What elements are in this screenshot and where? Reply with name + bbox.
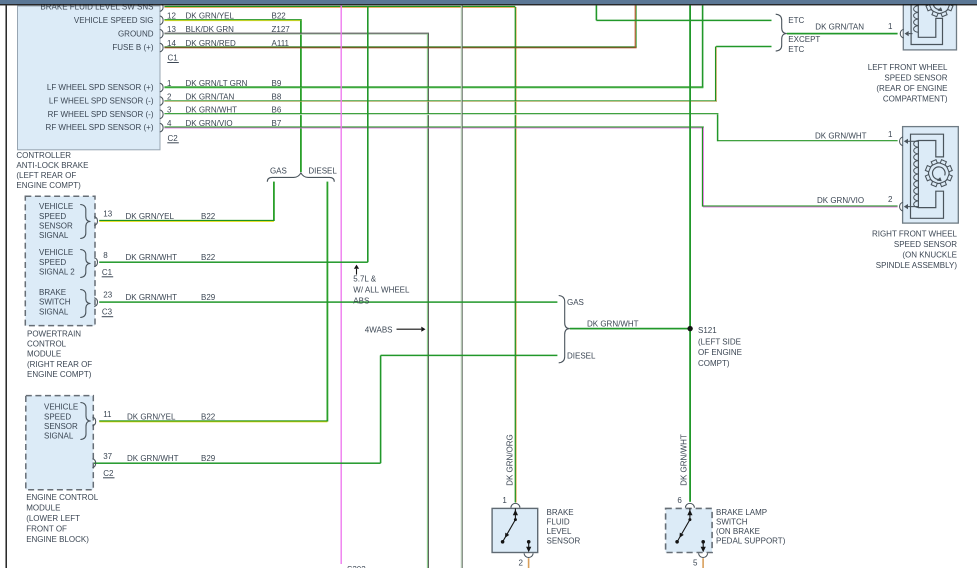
svg-text:C2: C2: [168, 134, 179, 143]
wire: CAB 4 DK GRN/VIO B7 to RF sensor pin 2: [164, 126, 703, 127]
svg-text:DK GRN/WHT: DK GRN/WHT: [127, 454, 179, 463]
wire: PCM 8 DK GRN/WHT B22 up to top edge: [99, 261, 368, 263]
svg-text:SENSOR: SENSOR: [39, 221, 73, 230]
svg-text:BRAKE: BRAKE: [39, 288, 66, 297]
svg-text:POWERTRAIN: POWERTRAIN: [27, 329, 81, 338]
svg-text:ENGINE BLOCK): ENGINE BLOCK): [26, 535, 89, 544]
svg-text:8: 8: [103, 251, 108, 260]
wire: DIESEL branch down to ECM 11: [327, 182, 329, 422]
svg-text:1: 1: [502, 496, 507, 505]
wire: merged DK GRN/TAN to LF sensor pin 1: [787, 33, 898, 35]
BLS pin 5 contact: [701, 540, 705, 544]
wire: unrelated pass-through (pale green/gray) top to bottom: [461, 5, 462, 568]
svg-text:ANTI-LOCK BRAKE: ANTI-LOCK BRAKE: [16, 161, 88, 170]
svg-text:PEDAL SUPPORT): PEDAL SUPPORT): [716, 537, 786, 546]
top black border: [0, 4, 977, 5]
svg-text:C1: C1: [168, 54, 179, 63]
wire: CAB 12 DK GRN/YEL B22 down to GAS/DIESEL split: [164, 19, 301, 20]
svg-text:(LEFT REAR OF: (LEFT REAR OF: [16, 171, 76, 180]
svg-text:S121: S121: [698, 326, 717, 335]
svg-text:ENGINE CONTROL: ENGINE CONTROL: [26, 493, 99, 502]
svg-text:SWITCH: SWITCH: [716, 518, 748, 527]
svg-text:DK GRN/WHT: DK GRN/WHT: [679, 434, 688, 486]
brake fluid level sensor box: [492, 508, 538, 552]
svg-text:GAS: GAS: [567, 298, 584, 307]
svg-text:DK GRN/WHT: DK GRN/WHT: [126, 253, 178, 262]
svg-text:(LOWER LEFT: (LOWER LEFT: [26, 514, 80, 523]
wire: CAB 14 DK GRN/RED A111 fuse, up to top edge: [164, 46, 636, 47]
svg-text:FLUID: FLUID: [547, 518, 570, 527]
wire: PCM 23 DK GRN/WHT B29 (GAS) to merge brace: [99, 301, 557, 303]
wire: CAB 1 DK GRN/LT GRN B9, up to top edge (LF sensor): [164, 86, 703, 87]
svg-text:2: 2: [888, 195, 893, 204]
LF sensor coil: [914, 0, 919, 32]
svg-text:SIGNAL 2: SIGNAL 2: [39, 267, 75, 276]
svg-text:SWITCH: SWITCH: [39, 298, 71, 307]
svg-text:23: 23: [103, 291, 112, 300]
svg-text:C3: C3: [102, 308, 113, 317]
svg-text:SIGNAL: SIGNAL: [39, 307, 69, 316]
svg-text:LEVEL: LEVEL: [547, 527, 572, 536]
svg-text:SIGNAL: SIGNAL: [39, 231, 69, 240]
svg-text:C1: C1: [102, 268, 113, 277]
ECM pin 37 DK GRN/WHT: [92, 459, 95, 468]
svg-text:ENGINE COMPT): ENGINE COMPT): [16, 181, 81, 190]
svg-text:B22: B22: [201, 212, 216, 221]
right front wheel speed sensor box: [903, 127, 959, 224]
wire: page fold line (magenta): [341, 5, 342, 564]
svg-text:ABS: ABS: [353, 296, 369, 305]
svg-text:SIGNAL: SIGNAL: [44, 432, 74, 441]
svg-text:LF WHEEL SPD SENSOR (-): LF WHEEL SPD SENSOR (-): [49, 97, 154, 106]
svg-text:B29: B29: [201, 293, 216, 302]
wire: CAB 3 DK GRN/WHT B6 to RF sensor pin 1: [164, 113, 718, 114]
svg-text:DK GRN/VIO: DK GRN/VIO: [817, 196, 864, 205]
wire: BFLS pin 2 tan stub to bottom edge: [528, 558, 530, 568]
svg-text:LF WHEEL SPD SENSOR (+): LF WHEEL SPD SENSOR (+): [47, 83, 154, 92]
brake lamp switch box: [666, 508, 713, 552]
svg-text:2: 2: [167, 92, 172, 101]
left front wheel speed sensor box: [903, 5, 956, 50]
svg-text:DK GRN/WHT: DK GRN/WHT: [587, 320, 639, 329]
svg-text:B22: B22: [201, 412, 216, 421]
svg-text:EXCEPT: EXCEPT: [788, 35, 820, 44]
svg-text:RF WHEEL SPD SENSOR (-): RF WHEEL SPD SENSOR (-): [48, 110, 154, 119]
svg-text:ETC: ETC: [788, 16, 804, 25]
svg-text:DK GRN/YEL: DK GRN/YEL: [127, 412, 176, 421]
powertrain control module (PCM) box: [25, 196, 95, 325]
svg-text:SPEED SENSOR: SPEED SENSOR: [884, 73, 947, 82]
svg-text:CONTROLLER: CONTROLLER: [16, 151, 71, 160]
svg-text:BRAKE: BRAKE: [547, 508, 574, 517]
svg-text:RIGHT FRONT WHEEL: RIGHT FRONT WHEEL: [872, 230, 958, 239]
svg-text:DK GRN/TAN: DK GRN/TAN: [815, 23, 864, 32]
5.7L & W/ ALL WHEEL ABS note with up arrow: [356, 269, 358, 275]
LF sensor core (U pole piece, opens up): [911, 0, 942, 45]
svg-text:DK GRN/WHT: DK GRN/WHT: [126, 293, 178, 302]
svg-text:COMPARTMENT): COMPARTMENT): [883, 94, 948, 103]
svg-text:MODULE: MODULE: [26, 504, 60, 513]
svg-text:GROUND: GROUND: [118, 29, 154, 38]
RF sensor tone ring: [929, 163, 950, 184]
svg-text:C2: C2: [103, 469, 114, 478]
svg-text:B8: B8: [272, 92, 282, 101]
svg-text:DK GRN/TAN: DK GRN/TAN: [186, 92, 235, 101]
RF sensor core (C band): [911, 134, 944, 218]
svg-text:(LEFT SIDE: (LEFT SIDE: [698, 337, 741, 346]
split brace (opens down): [267, 173, 334, 182]
svg-text:SENSOR: SENSOR: [547, 537, 581, 546]
svg-text:6: 6: [677, 496, 682, 505]
svg-text:FRONT OF: FRONT OF: [26, 525, 67, 534]
svg-text:VEHICLE SPEED SIG: VEHICLE SPEED SIG: [74, 16, 154, 25]
ETC / EXCEPT ETC brace: [776, 14, 787, 51]
svg-text:2: 2: [519, 558, 524, 567]
svg-text:ETC: ETC: [788, 45, 804, 54]
svg-text:B22: B22: [201, 253, 216, 262]
svg-text:DK GRN/WHT: DK GRN/WHT: [815, 131, 867, 140]
svg-text:ENGINE COMPT): ENGINE COMPT): [27, 370, 92, 379]
svg-text:37: 37: [103, 452, 112, 461]
svg-text:DIESEL: DIESEL: [567, 351, 596, 360]
svg-text:DK GRN/YEL: DK GRN/YEL: [126, 212, 175, 221]
merge brace }: [559, 296, 570, 363]
wire: BLS pin 5 tan stub to bottom edge: [702, 558, 704, 568]
svg-text:LEFT FRONT WHEEL: LEFT FRONT WHEEL: [868, 63, 948, 72]
svg-text:OF ENGINE: OF ENGINE: [698, 348, 742, 357]
svg-text:COMPT): COMPT): [698, 359, 730, 368]
left black border: [6, 5, 7, 568]
svg-text:SPEED: SPEED: [39, 212, 66, 221]
svg-text:W/ ALL WHEEL: W/ ALL WHEEL: [353, 285, 410, 294]
svg-text:CONTROL: CONTROL: [27, 340, 67, 349]
svg-text:(ON KNUCKLE: (ON KNUCKLE: [902, 251, 957, 260]
BLS switch arm: [688, 518, 691, 521]
svg-text:13: 13: [103, 210, 112, 219]
svg-text:(REAR OF ENGINE: (REAR OF ENGINE: [876, 84, 947, 93]
svg-text:1: 1: [888, 130, 893, 139]
S121 splice dot: [687, 326, 692, 331]
svg-text:11: 11: [103, 410, 112, 419]
svg-text:RF WHEEL SPD SENSOR (+): RF WHEEL SPD SENSOR (+): [46, 123, 154, 132]
svg-text:FUSE B (+): FUSE B (+): [112, 43, 153, 52]
wire: DK GRN/WHT main vertical to S121 and brake lamp switch: [689, 5, 691, 501]
svg-text:BRAKE LAMP: BRAKE LAMP: [716, 508, 767, 517]
svg-text:VEHICLE: VEHICLE: [44, 403, 78, 412]
svg-text:B29: B29: [201, 454, 216, 463]
svg-text:SPEED: SPEED: [39, 258, 66, 267]
wire: CAB brake fluid level sw sns (DK GRN/ORG) to brake fluid level sensor: [164, 6, 515, 7]
LF sensor tone ring (cut by border): [929, 0, 950, 14]
svg-text:VEHICLE: VEHICLE: [39, 202, 73, 211]
svg-text:5: 5: [693, 558, 698, 567]
wire: DIESEL row (ECM 37) to merge brace: [381, 355, 558, 357]
svg-text:SPINDLE ASSEMBLY): SPINDLE ASSEMBLY): [876, 261, 958, 270]
wire: GAS branch down to PCM 13: [273, 182, 275, 221]
svg-text:MODULE: MODULE: [27, 350, 61, 359]
BFLS pin 2 contact: [527, 540, 531, 544]
svg-text:(ON BRAKE: (ON BRAKE: [716, 527, 760, 536]
wire: CAB 13 BLK/DK GRN Z127 ground, down to bottom edge: [164, 33, 429, 34]
ECM pin 11 DK GRN/YEL: [92, 417, 95, 426]
svg-text:4WABS: 4WABS: [365, 325, 393, 334]
engine control module (ECM) box: [26, 396, 94, 490]
wire: CAB 2 DK GRN/TAN B8 to EXCEPT ETC brace: [164, 100, 717, 101]
wire: ETC variant from top edge: [596, 5, 598, 20]
svg-text:1: 1: [888, 22, 893, 31]
svg-text:VEHICLE: VEHICLE: [39, 248, 73, 257]
window title bar remnant: [0, 0, 977, 4]
svg-text:SPEED: SPEED: [44, 412, 71, 421]
controller anti-lock brake (CAB) box: [18, 6, 161, 150]
RF sensor coil: [914, 141, 919, 208]
svg-text:DK GRN/ORG: DK GRN/ORG: [505, 434, 514, 486]
svg-text:DIESEL: DIESEL: [308, 167, 337, 176]
svg-text:(RIGHT REAR OF: (RIGHT REAR OF: [27, 360, 92, 369]
svg-text:5.7L &: 5.7L &: [353, 274, 376, 283]
svg-text:SENSOR: SENSOR: [44, 422, 78, 431]
svg-text:GAS: GAS: [270, 167, 287, 176]
BFLS switch arm: [514, 518, 517, 521]
svg-text:SPEED SENSOR: SPEED SENSOR: [894, 240, 957, 249]
